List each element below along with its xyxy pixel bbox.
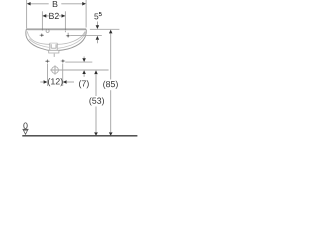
7 dim up arrow: [82, 70, 86, 74]
washbasin technical drawing: [22, 0, 137, 136]
basin outer outline left: [26, 30, 49, 51]
tap hole cross right: [66, 33, 70, 38]
label (7): [79, 80, 89, 88]
zero level underline: [23, 128, 29, 130]
drain outlet level line to right: [50, 69, 108, 71]
12 dim extension line left: [47, 64, 49, 87]
B dimension extension line right: [85, 0, 87, 28]
12 dim left leader + arrow: [40, 81, 43, 83]
B2 extension line right: [64, 11, 66, 32]
label B: [53, 1, 58, 7]
basin edge middle line right: [58, 32, 86, 49]
basin rim top line: [26, 28, 86, 30]
85 dim line lower + down arrow: [110, 90, 112, 132]
wall bolt cross left: [45, 59, 49, 63]
label B2: [49, 13, 59, 19]
basin inner bowl curve left: [27, 31, 50, 44]
tap hole cross left: [40, 33, 44, 37]
label (12): [48, 78, 63, 86]
12 dim right leader + arrow: [67, 81, 74, 83]
label (85): [103, 81, 118, 89]
B arrow left: [27, 2, 31, 6]
wall bolt cross right: [61, 59, 65, 63]
B2 arrow right: [62, 14, 66, 18]
B2 arrow left: [43, 14, 47, 18]
basin inner bowl curve right: [57, 31, 85, 44]
label 0: [23, 123, 27, 129]
B2 dimension line: [43, 15, 49, 17]
drain outlet crosshair vertical: [54, 65, 56, 75]
53 dim line lower + down arrow: [95, 107, 97, 133]
drain outlet inner wedges: [53, 68, 57, 72]
85 dim up arrow: [109, 30, 113, 34]
B dimension extension line left: [26, 0, 28, 28]
drain body: [50, 43, 58, 50]
label 5 of 5.5: [94, 14, 98, 20]
tap hole reference line to the right: [70, 35, 102, 37]
drain outlet circle: [52, 67, 59, 74]
basin edge middle line left: [29, 39, 49, 48]
53 dim up arrow: [94, 70, 98, 74]
drain flange: [49, 50, 59, 53]
rim top reference line (right): [90, 28, 120, 30]
basin outer outline right: [59, 30, 86, 51]
label (53): [89, 97, 104, 105]
overflow hole circle: [46, 29, 49, 32]
drain stub below: [53, 54, 55, 57]
12 dim extension line right: [62, 64, 64, 87]
B2 extension line left: [41, 11, 43, 31]
superscript 5: [99, 12, 102, 16]
5.5 dim upper arrow: [97, 22, 99, 26]
floor line: [22, 135, 137, 137]
7 dim down arrow: [83, 57, 85, 59]
rim underline fuzz: [28, 29, 86, 31]
B dimension line: [31, 3, 49, 5]
5.5 dim lower arrow: [96, 36, 100, 40]
B arrow right: [82, 2, 86, 6]
zero level triangle: [23, 130, 27, 134]
bolt level line to right: [65, 61, 92, 63]
